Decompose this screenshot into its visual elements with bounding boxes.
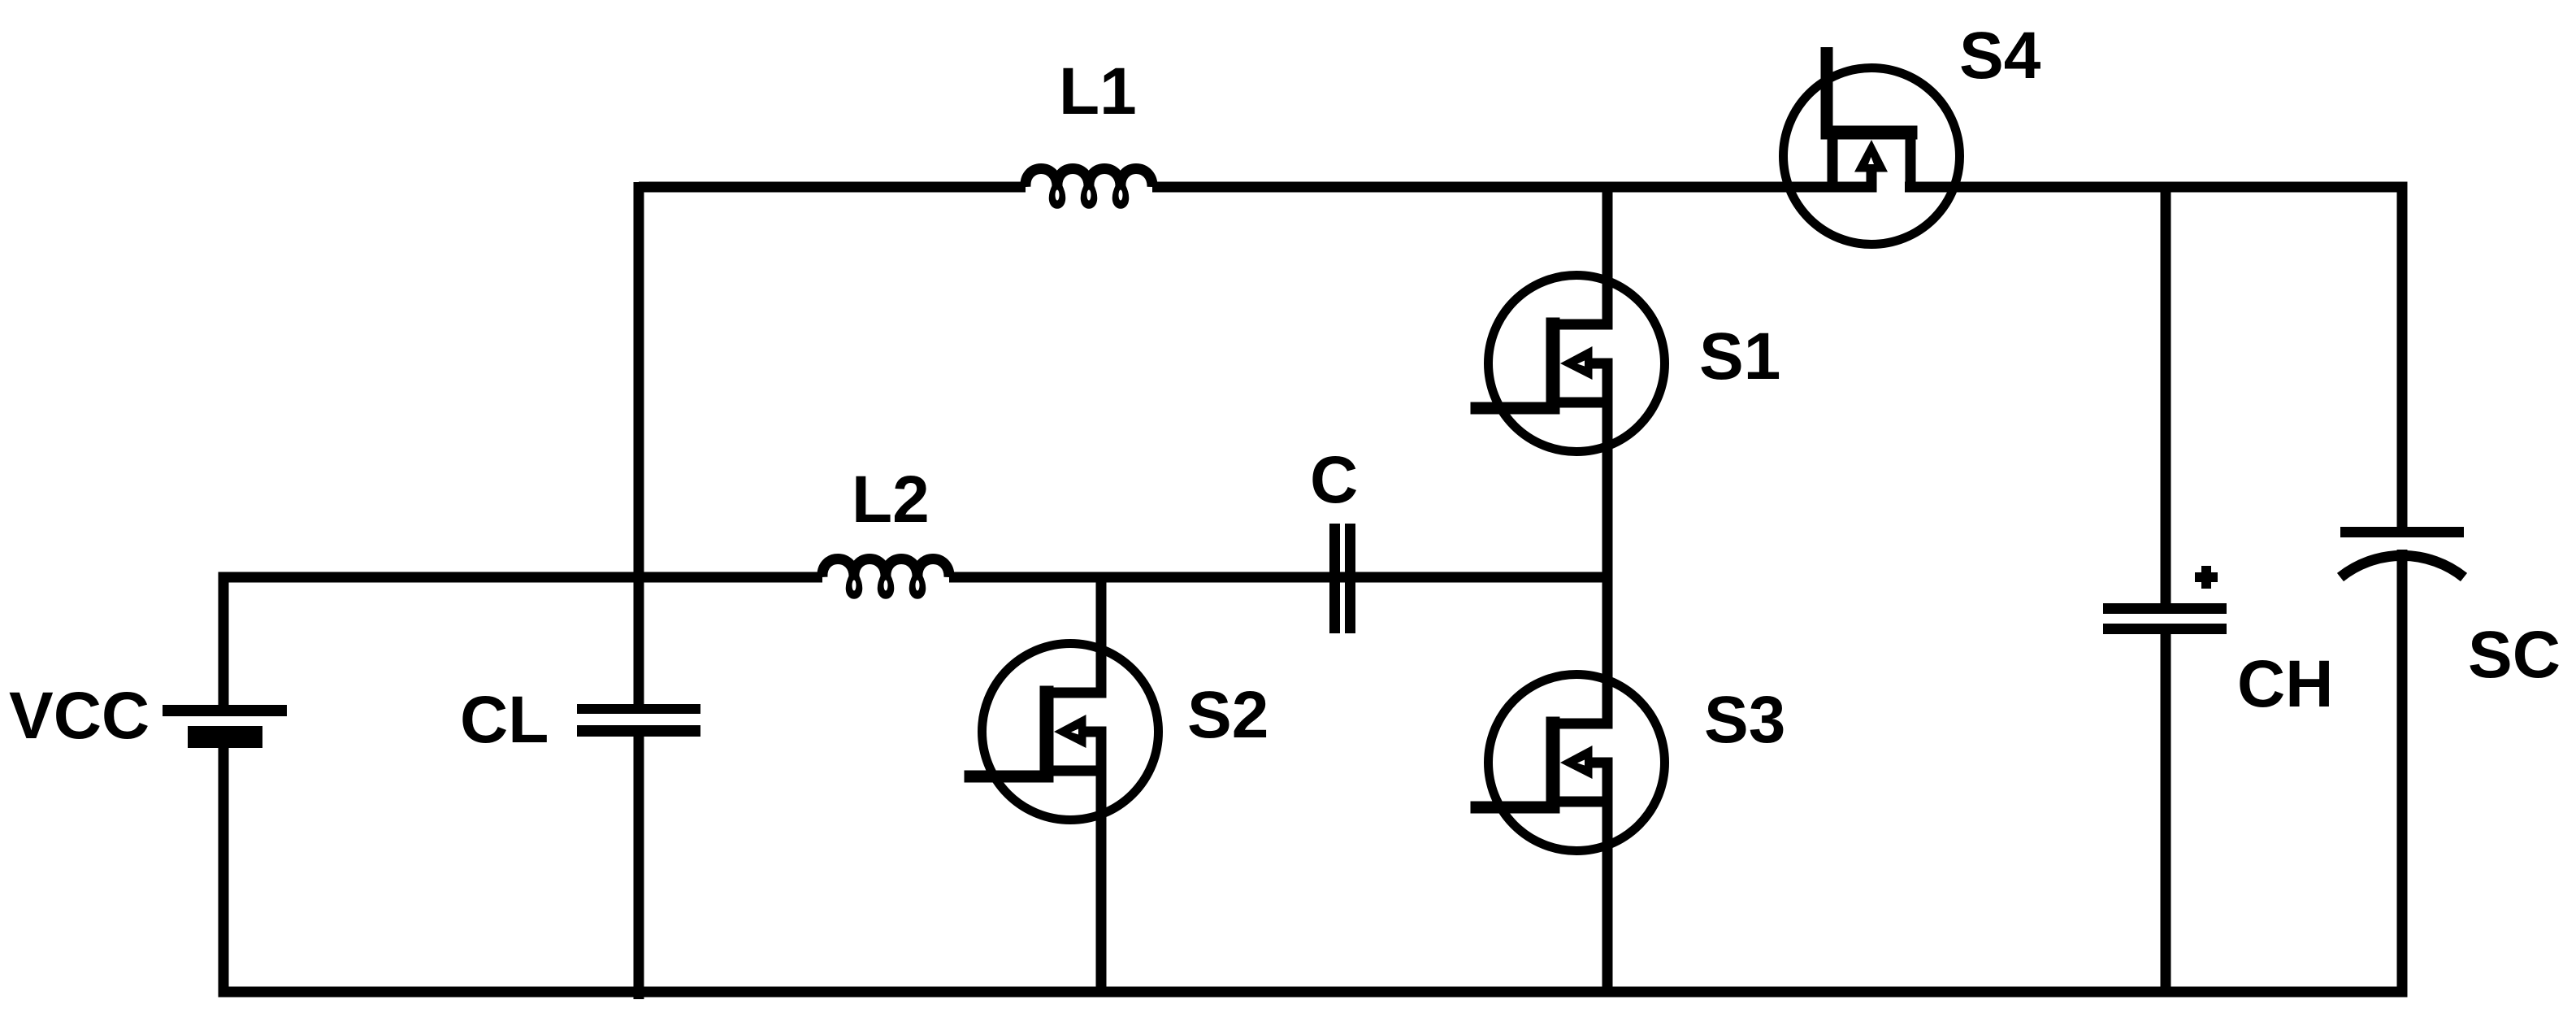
svg-text:SC: SC (2468, 618, 2561, 692)
svg-text:CH: CH (2237, 647, 2333, 721)
svg-text:S1: S1 (1699, 320, 1780, 393)
svg-text:L1: L1 (1059, 54, 1137, 128)
svg-text:S2: S2 (1187, 678, 1268, 752)
svg-text:S3: S3 (1704, 683, 1785, 757)
svg-text:VCC: VCC (9, 679, 150, 753)
svg-text:S4: S4 (1959, 19, 2041, 93)
svg-text:CL: CL (460, 683, 549, 757)
svg-text:C: C (1310, 443, 1358, 517)
svg-text:L2: L2 (852, 463, 930, 537)
